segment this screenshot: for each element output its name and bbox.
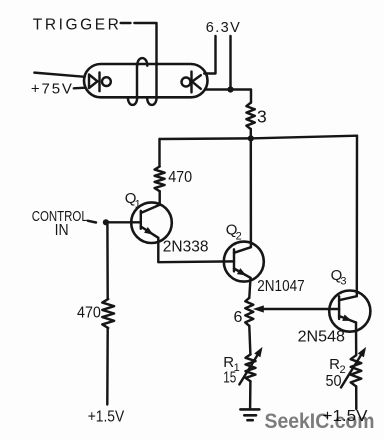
ground <box>240 408 259 411</box>
wire Q1 emitter to Q2 base <box>158 238 234 262</box>
flash tube left electrode (triangle) <box>89 75 98 89</box>
resistor 470 (collector load) <box>155 167 165 192</box>
svg-text:15: 15 <box>223 369 236 386</box>
potentiometer 6 <box>245 298 253 326</box>
wire bus to Q3 collector <box>356 136 359 297</box>
wire trigger dash <box>121 22 131 24</box>
svg-text:6: 6 <box>234 309 243 326</box>
Q2 emitter stroke <box>234 269 251 278</box>
Q1 base bar <box>140 211 142 229</box>
wire Q3 emitter down <box>355 323 358 356</box>
flash tube right electrode dot <box>182 78 191 87</box>
wire 6.3V left lead <box>204 36 215 74</box>
flash tube V1 envelope <box>84 64 208 97</box>
trigger coil front strand 1 <box>155 64 157 98</box>
flash tube right electrode bar <box>190 72 192 93</box>
rheostat R1 <box>246 354 256 381</box>
R1 wiper arrow shaft <box>239 355 257 384</box>
Q2 emitter arrowhead <box>237 268 247 275</box>
flash tube right electrode chevron <box>192 75 201 89</box>
wire Q2 collector to bus <box>250 138 253 247</box>
svg-text:R: R <box>329 356 340 373</box>
Q1 emitter arrowhead <box>144 227 153 235</box>
Q3 emitter arrowhead <box>342 315 352 321</box>
wire +75V upper lead <box>34 73 84 77</box>
trigger coil bottom loop left <box>128 97 137 105</box>
wire +75V lower lead <box>74 86 86 89</box>
node bus junction <box>248 135 254 141</box>
wire R3 to bus <box>250 129 252 138</box>
trigger coil bottom loop right <box>147 97 157 105</box>
wire supply bus <box>160 136 358 139</box>
transistor Q2 <box>224 242 264 282</box>
svg-text:+1.5V: +1.5V <box>88 408 125 425</box>
svg-text:SeekIC.com: SeekIC.com <box>265 409 375 433</box>
R2 wiper arrow shaft <box>341 355 361 387</box>
wire Q1 base <box>106 221 141 223</box>
svg-text:2N548: 2N548 <box>298 329 345 346</box>
trigger coil top loop <box>137 58 147 66</box>
svg-text:470: 470 <box>77 304 101 321</box>
transistor Q3 <box>329 291 370 332</box>
transistor Q1 <box>131 202 172 243</box>
svg-text:R: R <box>223 354 234 371</box>
Q3 emitter stroke <box>339 316 356 323</box>
svg-text:50: 50 <box>326 373 342 390</box>
svg-text:IN: IN <box>55 222 69 239</box>
R2 wiper arrowhead <box>358 347 366 357</box>
flash tube left electrode dot <box>102 77 111 86</box>
wire trigger lead to coil <box>134 23 156 64</box>
wire control node down <box>106 222 109 299</box>
wire pot to R1 <box>249 326 250 355</box>
wire tube anode to R3 <box>205 90 251 103</box>
Q2 base bar <box>233 249 235 271</box>
rheostat R2 <box>351 355 362 386</box>
svg-text:470: 470 <box>168 169 192 186</box>
pot wiper arrowhead <box>253 305 264 312</box>
svg-text:3: 3 <box>257 106 267 126</box>
wire R1 to ground <box>249 381 252 409</box>
Q3 collector stroke <box>339 296 357 300</box>
Q1 collector stroke <box>141 205 160 213</box>
wire bias resistor to +1.5V <box>106 328 109 405</box>
node at tube anode line <box>227 86 233 92</box>
wire 6.3V right lead <box>229 36 231 90</box>
node control-in <box>103 219 109 225</box>
Q1 emitter stroke <box>141 227 159 238</box>
svg-text:2N338: 2N338 <box>163 238 209 255</box>
wire bus to R470 <box>158 139 160 167</box>
wire control-in dash <box>88 221 96 223</box>
resistor 470 (bias) <box>102 299 114 328</box>
svg-text:2N1047: 2N1047 <box>257 278 304 295</box>
wire R2 to +1.5V <box>355 386 358 409</box>
Q3 base bar <box>338 296 340 319</box>
svg-text:1: 1 <box>135 199 141 211</box>
svg-text:6.3V: 6.3V <box>206 20 240 36</box>
R1 wiper arrowhead <box>254 347 262 357</box>
resistor R3 <box>246 103 254 129</box>
wire Q2 emitter down <box>249 278 250 298</box>
svg-text:3: 3 <box>340 275 346 287</box>
wire R470 to Q1 collector <box>158 191 160 205</box>
svg-text:+75V: +75V <box>31 80 72 97</box>
pot wiper wire to Q3 base <box>264 308 339 310</box>
svg-text:2: 2 <box>236 230 242 242</box>
Q2 collector stroke <box>234 247 251 253</box>
trigger coil front strand 2 <box>136 64 138 97</box>
flash tube left electrode bar <box>98 73 100 92</box>
